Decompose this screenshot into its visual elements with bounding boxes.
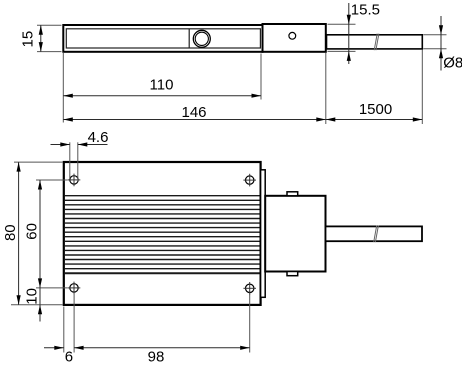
dim 15.5 extension lines bbox=[328, 23, 356, 25]
dim 10 line bbox=[39, 288, 41, 305]
end cap hole bbox=[289, 32, 296, 39]
dim dia8 extension lines bbox=[423, 34, 446, 36]
dim 6 line bbox=[44, 347, 64, 349]
dim 1500 line bbox=[326, 119, 423, 121]
svg-text:110: 110 bbox=[150, 77, 174, 94]
dim 15.5 line bbox=[348, 3, 350, 64]
end plate bbox=[261, 170, 266, 297]
dim 15 line bbox=[40, 25, 42, 51]
inner divider bbox=[188, 29, 190, 48]
mounting hole top-left bbox=[70, 176, 78, 184]
dim 146 line bbox=[63, 119, 326, 121]
dim dia8 line bbox=[440, 16, 442, 71]
svg-text:10: 10 bbox=[24, 288, 41, 305]
end cap (side view) bbox=[263, 24, 326, 52]
cable (top view) bbox=[326, 226, 423, 241]
svg-text:4.6: 4.6 bbox=[88, 129, 109, 146]
cable (side view) bbox=[327, 35, 423, 49]
amplifier body (top view) bbox=[64, 162, 261, 305]
mounting hole top-right bbox=[246, 176, 254, 184]
svg-text:15.5: 15.5 bbox=[351, 2, 380, 19]
dim 80 extension lines bbox=[14, 161, 63, 163]
mounting hole bottom-left bbox=[70, 284, 78, 292]
connector block bbox=[265, 196, 325, 272]
sensor head inner shell bbox=[66, 29, 260, 48]
mounting hole bottom-right bbox=[246, 284, 254, 292]
adjuster screw outer bbox=[193, 30, 210, 47]
cable break mark (side view) bbox=[374, 34, 377, 51]
adjuster screw inner bbox=[195, 32, 208, 45]
dim 60 line bbox=[39, 180, 41, 288]
dim 110 extension lines bbox=[62, 52, 64, 122]
svg-text:1500: 1500 bbox=[359, 101, 392, 118]
heatsink fins bbox=[65, 195, 260, 197]
cable break mark (top view) bbox=[374, 226, 377, 243]
dim 15 extension lines bbox=[37, 24, 62, 26]
connector tab bottom bbox=[287, 272, 298, 276]
dim 1500 extension line bbox=[421, 50, 423, 125]
svg-text:98: 98 bbox=[148, 348, 165, 365]
svg-text:60: 60 bbox=[24, 223, 41, 240]
dim 4.6 line bbox=[51, 144, 70, 146]
svg-text:6: 6 bbox=[65, 348, 73, 365]
dim 146 extension lines bbox=[325, 53, 327, 124]
dim 110 line bbox=[63, 95, 261, 97]
dim 80 line bbox=[18, 162, 20, 305]
dim 4.6 extension lines bbox=[69, 142, 71, 178]
dim 98 line bbox=[74, 347, 250, 349]
svg-text:80: 80 bbox=[2, 224, 19, 241]
svg-text:15: 15 bbox=[20, 31, 37, 48]
dim 6/98 extension lines bbox=[63, 307, 65, 353]
dim 60 extension lines bbox=[36, 179, 68, 181]
sensor head body (side view outer) bbox=[63, 25, 262, 52]
svg-text:146: 146 bbox=[181, 104, 206, 121]
svg-text:Ø8: Ø8 bbox=[443, 54, 462, 71]
connector tab top bbox=[287, 192, 298, 196]
